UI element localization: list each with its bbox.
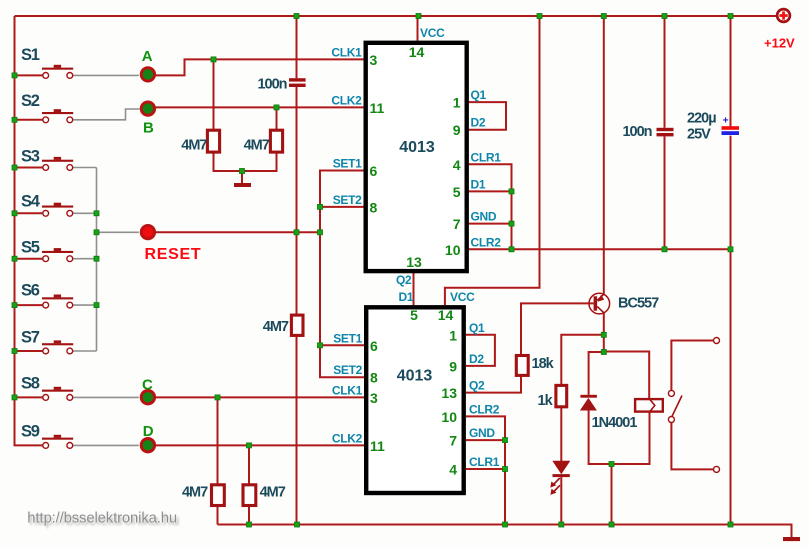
wire CLR2 row [468,248,731,250]
resistor R2 4M7 [244,130,283,153]
svg-text:D1: D1 [471,177,486,191]
pushbutton S1 [21,46,73,78]
pushbutton S4 [21,193,73,217]
ground (bottom right) [783,537,800,541]
pushbutton S9 [21,423,73,449]
wire R9 bottom lead [248,506,250,525]
wire S4 to bus [73,212,97,214]
wire relay NO contact [671,423,713,470]
svg-text:25V: 25V [687,127,711,143]
pin numbers upper 4013 [370,44,461,270]
svg-text:5: 5 [453,184,461,200]
wire CLR1 pin4 lower [466,468,505,470]
resistor R1 4M7 [181,130,219,153]
wire GND pin7 lower [466,439,505,441]
svg-text:S6: S6 [21,282,40,300]
wire C4 bottom lead [664,136,666,249]
svg-text:8: 8 [370,200,378,216]
wire CLR1 chain upper [468,164,512,249]
wire R6 top to Q2 base [521,303,594,356]
svg-text:4M7: 4M7 [263,319,289,335]
LED A [141,48,154,81]
wire Q2 pin13 to D1 pin5 [413,273,415,306]
wire S9 to LED D [73,444,139,446]
LED C [141,376,154,404]
svg-text:CLR2: CLR2 [471,235,502,249]
wire upper VCC pin14 [417,16,419,41]
pin labels lower 4013 [332,290,500,469]
svg-text:A: A [142,48,153,65]
wire D1 pin5 upper [468,190,512,192]
svg-text:+: + [723,115,729,127]
svg-text:220µ: 220µ [687,111,716,127]
svg-text:S2: S2 [21,92,40,110]
wire S5 to bus [73,258,97,260]
svg-text:S5: S5 [21,239,40,257]
svg-text:CLR1: CLR1 [469,455,500,469]
svg-text:10: 10 [445,242,461,258]
svg-text:14: 14 [409,44,425,60]
wire relay bottom to ground rail [611,464,613,525]
wire S1 to LED A [73,74,139,76]
wire SET bus [320,171,366,378]
svg-text:SET1: SET1 [333,331,362,345]
svg-text:8: 8 [370,370,378,386]
capacitor C3 100n [257,77,305,93]
svg-text:Q1: Q1 [471,88,487,102]
wire Q1 to D2 upper [468,102,507,130]
transistor Q2 BC557 [589,293,659,314]
svg-text:13: 13 [441,385,457,401]
wire R7 bottom to LED1 [560,407,562,462]
svg-text:1: 1 [449,327,457,343]
wire S6 to bus [73,304,97,306]
svg-text:Q2: Q2 [396,273,412,287]
wire ground stub [241,171,243,184]
svg-text:9: 9 [449,358,457,374]
wire R8 top lead [217,397,219,486]
svg-text:7: 7 [449,433,457,449]
ground (upper) [234,183,251,187]
wire collector to D6 anode [589,352,604,395]
svg-text:3: 3 [370,390,378,406]
op-amp U2 4013 lower [366,307,464,493]
svg-text:+12V: +12V [764,36,795,51]
+12V supply terminal [764,9,795,50]
capacitor C5 220u electrolytic [687,111,739,143]
svg-text:4M7: 4M7 [244,138,270,154]
svg-text:5: 5 [410,307,418,323]
pushbutton S2 [21,92,73,123]
svg-text:7: 7 [453,216,461,232]
svg-text:1k: 1k [538,393,554,409]
svg-text:13: 13 [406,254,422,270]
svg-text:S7: S7 [21,329,40,347]
wire C5 bottom lead to ground rail [730,136,732,525]
wire relay common contact [671,341,713,391]
svg-text:SET1: SET1 [333,157,362,171]
svg-text:http://bsselektronika.hu: http://bsselektronika.hu [27,511,177,527]
svg-text:S8: S8 [21,375,40,393]
wire relay coil top to collector node [604,352,649,399]
wire C4 top lead [664,16,666,128]
svg-text:B: B [143,119,154,136]
capacitor C4 100n [622,124,673,140]
pin labels upper 4013 [331,26,501,287]
svg-text:CLK2: CLK2 [332,431,363,445]
wire C5 top lead [730,16,732,127]
svg-text:11: 11 [370,100,385,116]
wire GND pin7 upper [468,223,512,225]
wire LED D to lower CLK2 pin 11 [156,444,364,446]
wire rail to S2 [15,119,43,121]
svg-text:3: 3 [370,52,378,68]
svg-text:BC557: BC557 [618,296,659,312]
svg-text:CLR1: CLR1 [471,150,502,164]
svg-text:4: 4 [453,157,461,173]
pushbutton S6 [21,282,73,309]
wire S7 to bus [73,350,97,352]
svg-text:CLK2: CLK2 [331,93,362,107]
wire R2 top lead [276,107,278,130]
wire rail to S4 [15,212,43,214]
svg-text:CLR2: CLR2 [469,402,500,416]
wire bottom ground rail [218,525,792,538]
wire rail to S5 [15,258,43,260]
wire R1 top lead [213,59,215,130]
svg-text:10: 10 [441,409,457,425]
pushbutton S5 [21,239,73,262]
svg-text:Q2: Q2 [469,379,485,393]
wire R1 bottom lead [214,153,243,172]
svg-text:SET2: SET2 [333,363,362,377]
svg-text:4M7: 4M7 [260,485,286,501]
wire rail to S1 [15,74,43,76]
resistor R7 1k [538,385,567,409]
wire CLR2 lower chain [466,416,505,524]
wire lower VCC pin14 [445,16,540,305]
pushbutton S3 [21,148,73,171]
wire LED C to lower CLK1 pin 3 [156,396,364,398]
svg-text:D2: D2 [471,116,486,130]
diode D6 1N4001 [580,395,637,431]
svg-text:100n: 100n [622,124,651,140]
svg-text:14: 14 [438,307,454,323]
wire gray bus S3-S7 [96,168,98,352]
wire Q2 pin13 to R6 [466,376,521,393]
svg-text:CLK1: CLK1 [332,383,363,397]
LED B [141,102,154,136]
pin numbers lower 4013 [370,307,457,478]
svg-text:CLK1: CLK1 [331,45,362,59]
wire LED RESET to SET bus [156,231,320,233]
wire LED B to CLK2 pin 11 [156,106,364,108]
LED RESET [141,225,201,262]
wire bus to LED RESET [97,231,139,233]
wire Q2 collector down [603,313,605,352]
wire S3 to bus [73,167,97,169]
svg-text:Q1: Q1 [469,321,485,335]
svg-text:GND: GND [471,210,497,224]
wire R9 top lead [248,445,250,486]
wire collector to R7 top [561,335,604,385]
svg-text:1: 1 [453,95,461,111]
svg-text:SET2: SET2 [333,193,362,207]
svg-text:S3: S3 [21,148,40,166]
svg-text:D1: D1 [399,290,414,304]
wire S8 to LED C [73,396,139,398]
wire SET1 lower [320,344,366,346]
svg-text:18k: 18k [532,356,555,372]
svg-text:6: 6 [370,338,378,354]
svg-text:VCC: VCC [420,26,445,40]
svg-text:D2: D2 [469,352,484,366]
relay K1 coil [635,399,663,413]
LED D [141,423,154,452]
svg-text:S4: S4 [21,193,41,211]
watermark [27,510,180,529]
svg-text:S1: S1 [21,46,40,64]
wire SET2 upper [320,206,364,208]
wire S2 to LED B [73,109,140,120]
wire R5 bottom to ground rail [296,336,298,525]
svg-text:4M7: 4M7 [182,485,208,501]
resistor R8 4M7 [182,485,224,506]
svg-text:D: D [143,423,154,440]
pushbutton S8 [21,375,73,401]
relay contacts [668,338,719,473]
pushbutton S7 [21,329,73,354]
svg-text:C: C [142,376,153,393]
svg-text:9: 9 [453,122,461,138]
svg-text:1N4001: 1N4001 [592,415,638,431]
wire C3 bottom to R5 top [296,87,298,315]
resistor R9 4M7 [243,485,286,506]
wire rail to S3 [15,167,43,169]
svg-text:4: 4 [449,462,457,478]
wire D6 cathode to relay bottom [589,410,650,464]
wire Q1 to D2 lower [466,335,495,366]
LED1 red indicator [550,461,570,495]
svg-text:GND: GND [469,426,495,440]
gray wires (switch output side) [73,75,140,445]
svg-text:4013: 4013 [397,368,433,385]
svg-text:RESET: RESET [145,246,202,263]
svg-text:4M7: 4M7 [181,138,207,154]
wire rail to S7 [15,350,43,352]
svg-text:100n: 100n [257,77,286,93]
wire left switch rail [15,16,43,445]
resistor R6 18k [516,356,554,376]
wire top +12V rail [15,15,777,17]
svg-text:S9: S9 [21,423,40,441]
op-amp U1 4013 upper [366,43,467,271]
wire R8 bottom lead [217,506,219,525]
resistor R5 4M7 [263,315,303,335]
wire rail to S6 [15,304,43,306]
wire rail to S8 [15,396,43,398]
svg-text:4013: 4013 [399,139,435,156]
svg-text:6: 6 [370,163,378,179]
wire LED A to CLK1 pin 3 [156,59,364,75]
wire rail to C3 top [296,16,298,78]
wire LED1 to ground rail [560,477,562,524]
svg-text:VCC: VCC [450,290,475,304]
wire R2 bottom lead [242,153,277,172]
svg-text:11: 11 [370,438,385,454]
wire rail to Q2 emitter [603,16,605,294]
